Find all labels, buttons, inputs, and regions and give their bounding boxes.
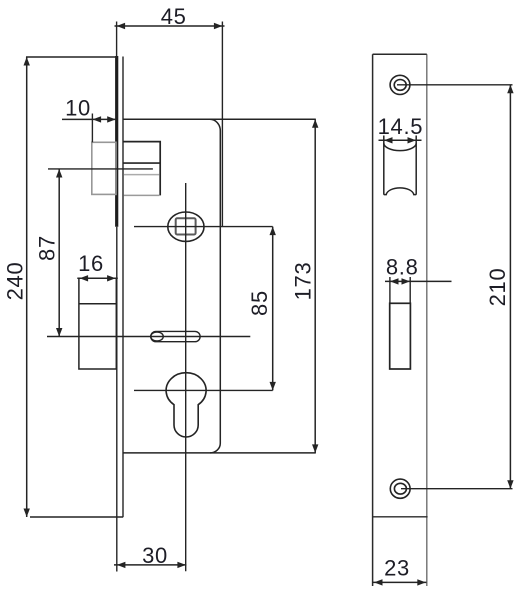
svg-text:85: 85: [247, 290, 272, 316]
faceplate front edge (thin lower segment, continues as 30-dim extension): [116, 227, 118, 572]
bottom screw hole outer: [390, 479, 410, 498]
dimension 14.5: [378, 114, 424, 144]
latch centre pointer line (87 extension): [48, 168, 153, 170]
svg-text:173: 173: [290, 262, 315, 301]
dimension 173: [290, 119, 318, 453]
latch grey inner line: [124, 174, 160, 176]
latch bolt head outside faceplate (grey): [92, 142, 116, 194]
plate top edge: [373, 53, 427, 55]
dimension 23: [373, 556, 427, 586]
bottom screw hole inner: [394, 483, 406, 494]
faceplate back edge: [122, 57, 124, 518]
latch black divider line: [124, 162, 161, 164]
deadbolt opening rect: [390, 303, 411, 369]
svg-text:23: 23: [384, 556, 410, 581]
dimension 30: [114, 543, 186, 568]
dimension 16: [77, 251, 118, 282]
svg-text:8.8: 8.8: [386, 255, 419, 280]
plate right edge: [426, 54, 428, 586]
bottom screw centreline (210 extension): [401, 488, 513, 490]
dimension 210: [485, 85, 513, 489]
latch cutout left side: [383, 136, 385, 195]
dimension 10: [62, 96, 117, 143]
svg-text:10: 10: [65, 96, 91, 121]
svg-text:210: 210: [485, 268, 510, 307]
latch bolt inside case, black outline: [124, 142, 161, 196]
top screw hole outer: [390, 75, 410, 94]
lock case bottom edge (extends right as 173 extension line): [123, 452, 316, 454]
latch cutout top arc: [384, 143, 416, 151]
euro cylinder hole: [166, 373, 206, 437]
latch cutout bottom arc: [384, 188, 416, 195]
faceplate front edge (thick upper segment): [115, 56, 118, 227]
oval slot end circle: [151, 332, 164, 341]
top screw hole inner: [394, 80, 406, 91]
dimension 45: [115, 4, 225, 227]
lock case right edge with rounded corners: [210, 119, 220, 453]
oval slot centreline (87 extension): [47, 336, 250, 338]
svg-text:16: 16: [78, 251, 104, 276]
vertical centreline of lock body: [185, 183, 187, 571]
plate left edge: [372, 54, 374, 586]
deadbolt head outside faceplate: [79, 278, 116, 369]
svg-text:87: 87: [34, 235, 59, 261]
plate/tab divide line: [373, 516, 428, 518]
spindle hole ellipse: [168, 212, 204, 241]
spindle horizontal centreline (85 extension): [134, 226, 273, 228]
cylinder centreline (85 extension): [134, 389, 273, 391]
dimension 85: [247, 227, 276, 391]
dimension 8.8: [385, 255, 452, 304]
top screw centreline (210 extension): [397, 84, 513, 86]
latch grey bottom line: [124, 194, 160, 196]
svg-text:14.5: 14.5: [378, 114, 424, 139]
lock case top edge (extends right as 173 extension line): [123, 118, 316, 120]
spindle square (grey): [176, 218, 196, 234]
oval slot capsule: [151, 331, 200, 341]
deadbolt division line: [79, 303, 116, 305]
dimension 87: [34, 169, 62, 337]
svg-text:240: 240: [3, 262, 28, 301]
latch cutout right side: [415, 136, 417, 195]
45 left extension line: [116, 22, 118, 57]
dimension 240: [3, 57, 124, 517]
